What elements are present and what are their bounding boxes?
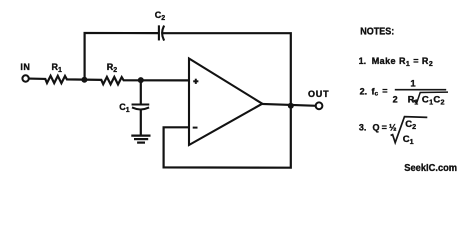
svg-text:2.: 2. [360, 86, 368, 96]
svg-text:2: 2 [393, 95, 398, 105]
svg-text:3.: 3. [359, 122, 367, 132]
svg-text:SeekIC.com: SeekIC.com [404, 163, 457, 174]
svg-text:=: = [382, 86, 387, 96]
svg-text:OUT: OUT [308, 89, 329, 99]
svg-text:1.: 1. [359, 56, 367, 66]
svg-text:Q = ½: Q = ½ [373, 122, 397, 132]
svg-text:1: 1 [410, 78, 416, 89]
svg-text:NOTES:: NOTES: [360, 26, 394, 38]
svg-text:IN: IN [20, 62, 30, 72]
